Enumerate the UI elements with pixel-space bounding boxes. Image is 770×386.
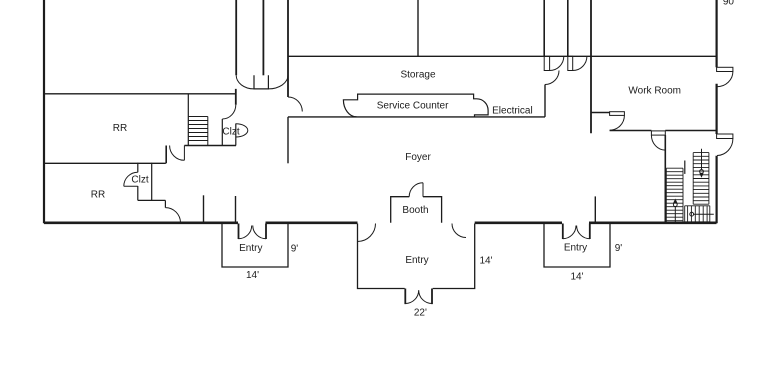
entry vestibule right	[544, 224, 610, 268]
wall work room jog y112	[591, 112, 610, 114]
wall closet lower outline	[138, 163, 166, 208]
door RR stairs-side leaf and arc	[170, 146, 185, 161]
door large entry right arc	[452, 224, 466, 238]
stairs center rail	[684, 161, 686, 174]
wall stairs left x188	[187, 94, 189, 145]
wall vertical x568 top	[567, 0, 569, 56]
wall x545 electrical left	[544, 85, 546, 117]
wall x288 lower foyer edge	[287, 117, 289, 163]
svg-text:9': 9'	[291, 244, 299, 255]
door work room leaf	[610, 112, 625, 116]
wall work room bottom y130	[610, 130, 717, 132]
wall vertical x591	[590, 0, 592, 133]
stairs bottom run	[685, 206, 710, 222]
booth door leaf	[422, 183, 424, 197]
door exterior stairwell leaf	[717, 134, 733, 139]
door exterior work room leaf	[717, 67, 733, 71]
wall RR mid y163	[44, 162, 166, 164]
svg-text:Entry: Entry	[405, 255, 428, 266]
svg-text:14': 14'	[570, 272, 583, 283]
door work room arc	[610, 115, 625, 130]
stairs arrow left run	[674, 206, 676, 222]
door closet upper arc	[236, 124, 248, 137]
stairs left run	[666, 168, 683, 222]
door storage B leaf	[568, 56, 573, 70]
wall left exterior	[43, 0, 45, 223]
booth door arc	[409, 183, 423, 197]
svg-text:9': 9'	[615, 243, 623, 254]
wall bottom exterior	[44, 222, 717, 225]
svg-text:Booth: Booth	[402, 205, 428, 216]
svg-text:Foyer: Foyer	[405, 152, 431, 163]
door left entry jambs	[239, 224, 267, 240]
entry vestibule large	[358, 224, 475, 289]
door large entry bottom arcs	[405, 290, 432, 303]
wall jamb x166	[165, 146, 167, 164]
door storage A leaf	[544, 56, 549, 70]
wall stub x595	[594, 196, 596, 222]
door electrical arc	[545, 71, 559, 85]
door large entry left arc	[358, 224, 376, 242]
door storage B arc	[573, 56, 587, 70]
svg-text:Clzt: Clzt	[131, 174, 148, 185]
door corridor left arc	[236, 75, 254, 89]
door corridor right arc	[268, 75, 288, 89]
svg-text:Service Counter: Service Counter	[377, 101, 449, 112]
wall vertical x288	[287, 0, 289, 97]
svg-text:Entry: Entry	[239, 243, 262, 254]
svg-text:RR: RR	[113, 123, 127, 134]
svg-text:14': 14'	[479, 256, 492, 267]
wall foyer top y117	[288, 116, 545, 118]
wall vertical x544 top	[543, 0, 545, 56]
booth room	[391, 197, 442, 223]
stairs arrow right run	[701, 149, 703, 170]
door RR exit arc	[165, 208, 180, 223]
svg-text:22': 22'	[414, 308, 427, 319]
svg-text:Storage: Storage	[400, 70, 435, 81]
entry vestibule left	[222, 224, 288, 268]
door RR upper arc	[222, 105, 236, 119]
wall RR top y94	[44, 93, 236, 95]
wall y145 under stairs	[184, 145, 236, 147]
wall stairwell left x665	[664, 135, 666, 222]
door right entry arcs	[563, 226, 590, 239]
svg-text:14': 14'	[246, 270, 259, 281]
stairs arrow bottom run	[694, 213, 714, 215]
wall closet upper left x222	[221, 119, 223, 146]
wall stub x235 bottom	[235, 196, 237, 223]
svg-text:Entry: Entry	[564, 243, 587, 254]
wall vertical x236 top	[235, 0, 237, 105]
wall right exterior	[715, 0, 717, 223]
door right entry jambs	[563, 224, 590, 240]
door stairwell arc	[651, 135, 665, 150]
stairs upper-left treads	[188, 117, 208, 146]
wall vertical x263 top	[262, 0, 264, 75]
door closet lower arc	[124, 172, 138, 186]
svg-text:Clzt: Clzt	[222, 126, 239, 137]
service counter island	[343, 94, 488, 117]
svg-text:Work Room: Work Room	[628, 85, 681, 96]
door large entry bottom jambs	[405, 289, 432, 305]
door stairwell leaf	[651, 131, 665, 135]
svg-text:90: 90	[723, 0, 735, 8]
stairs right run	[693, 153, 709, 205]
door left entry arcs	[239, 226, 267, 239]
door exterior work room arc	[717, 72, 733, 87]
svg-text:RR: RR	[91, 190, 105, 201]
wall storage top y56	[288, 55, 717, 57]
wall vertical x418 top	[417, 0, 419, 56]
door post corridor	[254, 75, 268, 89]
door service arc x288	[288, 97, 302, 112]
wall closet upper right x236	[235, 124, 237, 146]
door storage A arc	[550, 56, 564, 70]
wall stub x203	[203, 195, 205, 222]
door exterior stairwell arc	[717, 139, 733, 156]
svg-text:Electrical: Electrical	[492, 106, 533, 117]
